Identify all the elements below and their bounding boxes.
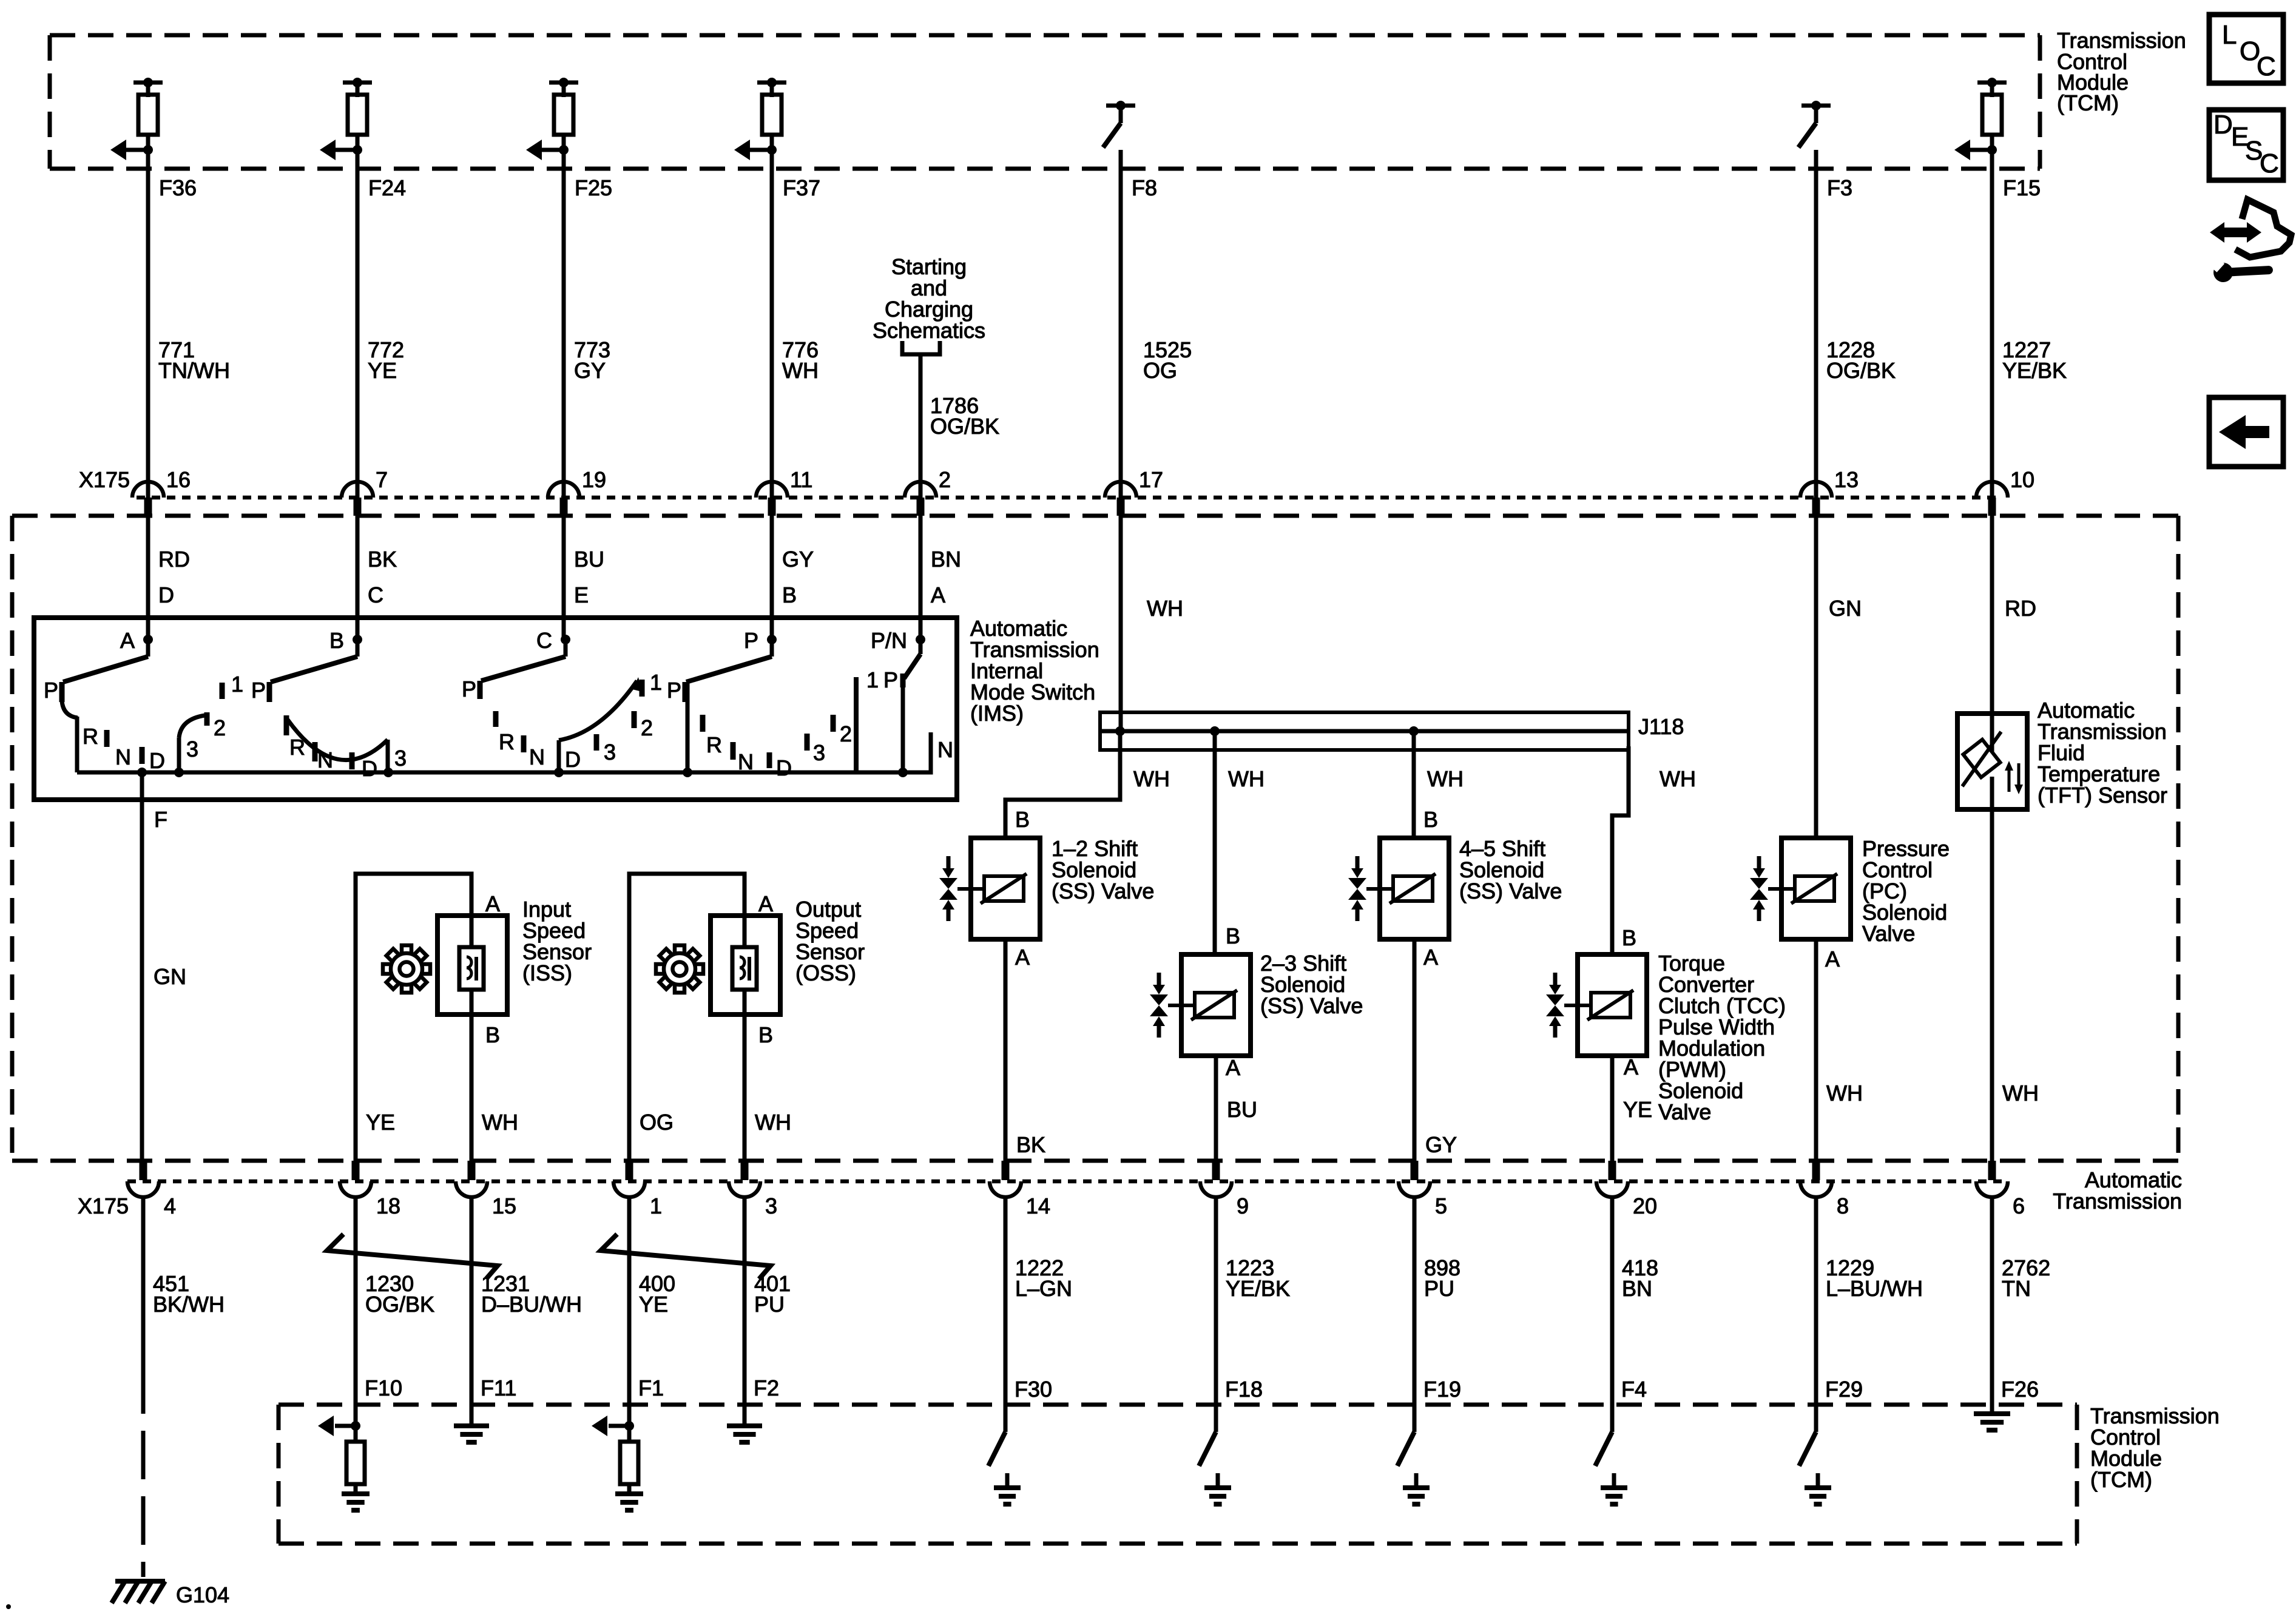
svg-text:G104: G104 [176, 1582, 229, 1607]
Automatic Transmission Internal Mode Switch (IMS) box [34, 618, 957, 800]
IMS switch A conductor 3-2 [174, 715, 205, 777]
svg-text:YE: YE [1623, 1097, 1652, 1122]
label TCC PWM Solenoid Valve [1658, 951, 1786, 1124]
IMS switch P contact N [733, 742, 754, 774]
TCM driver (resistor + arrow) for F25 [526, 78, 578, 160]
svg-text:B: B [1226, 923, 1240, 948]
wire 1230 OG/BK to TCM F10 [356, 1197, 434, 1423]
IMS switch A node [120, 628, 153, 653]
wire WH from J118 to TCC solenoid [1612, 746, 1696, 954]
svg-text:Valve: Valve [1862, 921, 1915, 946]
wire WH from J118 to 2-3 shift solenoid [1215, 731, 1264, 954]
Transmission Control Module (TCM) bottom dashed box [279, 1405, 2077, 1544]
IMS switch B contact R [286, 715, 305, 760]
IMS switch C contact N [524, 735, 545, 769]
svg-text:B: B [485, 1022, 500, 1047]
svg-text:P: P [44, 678, 58, 703]
TCM F2 ground [727, 1405, 762, 1442]
svg-text:F29: F29 [1825, 1377, 1863, 1402]
svg-text:R: R [83, 724, 98, 749]
svg-text:A: A [1015, 945, 1030, 970]
IMS switch P contact P and conductor [667, 678, 692, 777]
svg-text:3: 3 [394, 746, 407, 771]
svg-text:2: 2 [840, 721, 852, 746]
IMS switch B cam arc [288, 720, 393, 777]
connector X175 pin 6 (bottom) [1976, 1161, 2025, 1218]
IMS terminal F wire to connector X175 pin 4 [137, 768, 186, 1165]
Input Speed Sensor (ISS) body [437, 891, 507, 1165]
pin label F36 [159, 175, 197, 200]
wire label 773 GY [574, 337, 610, 383]
label Transmission Control Module (TCM) top [2057, 28, 2186, 115]
TCM driver (resistor + arrow) for F37 [734, 78, 786, 160]
svg-text:F26: F26 [2001, 1377, 2039, 1402]
svg-text:P: P [462, 677, 476, 701]
svg-text:4: 4 [164, 1193, 176, 1218]
svg-text:X175: X175 [78, 1193, 129, 1218]
label Automatic Transmission Fluid Temperature (TFT) Sensor [2038, 698, 2167, 808]
IMS switch C contact P [462, 677, 480, 701]
svg-text:A: A [931, 582, 945, 607]
svg-text:11: 11 [790, 467, 812, 492]
wire 1223 YE/BK to TCM F18 [1216, 1197, 1290, 1432]
IMS switch A blade to P [63, 640, 148, 682]
IMS switch B contact N [315, 742, 333, 772]
wire label 1786 OG/BK [930, 393, 999, 439]
svg-text:F3: F3 [1827, 175, 1852, 200]
ISS wire labels YE WH [366, 1110, 518, 1135]
svg-text:X175: X175 [79, 467, 130, 492]
off-page reference Starting and Charging Schematics [873, 254, 985, 354]
wire 2762 TN to TCM F26 [1992, 1197, 2050, 1414]
wire GY from pin to IMS terminal B [772, 516, 814, 642]
IMS switch P/N contact N [937, 737, 953, 762]
svg-text:F24: F24 [368, 175, 406, 200]
svg-text:BK: BK [368, 547, 397, 572]
connector X175 pin 17 (top) [1105, 467, 1163, 516]
pin label F3 [1827, 175, 1852, 200]
svg-text:GN: GN [1829, 596, 1862, 621]
svg-text:(SS) Valve: (SS) Valve [1459, 879, 1562, 903]
svg-text:WH: WH [1133, 766, 1170, 791]
svg-text:3: 3 [813, 740, 825, 765]
IMS switch C conductor D-2 [554, 677, 642, 777]
wire label 1525 OG [1143, 337, 1192, 383]
svg-text:BN: BN [1622, 1276, 1652, 1301]
svg-text:F25: F25 [575, 175, 612, 200]
TCM F10 input: arrow, resistor, ground [318, 1416, 370, 1510]
wire RD from pin 10 to TFT sensor [1992, 516, 2036, 714]
svg-text:GN: GN [154, 964, 186, 989]
IMS switch P node [744, 628, 777, 653]
connector X175 pin 3 (bottom) [729, 1161, 777, 1218]
svg-text:P: P [667, 678, 681, 703]
TCM F19 switch to ground [1397, 1405, 1430, 1504]
svg-text:A: A [1423, 945, 1438, 970]
TCM driver (resistor + arrow) for F15 [1954, 78, 2007, 160]
svg-text:WH: WH [782, 358, 819, 383]
label 4-5 Shift Solenoid (SS) Valve [1459, 836, 1562, 903]
IMS switch A contact R [83, 724, 107, 749]
svg-text:YE: YE [639, 1292, 668, 1317]
wire label 772 YE [368, 337, 404, 383]
IMS switch P contact D [769, 752, 792, 780]
wire from PC solenoid A to connector pin 8 [1816, 939, 1863, 1165]
connector X175 pin 20 (bottom) [1596, 1161, 1657, 1218]
svg-text:P: P [744, 628, 758, 653]
svg-text:A: A [1825, 947, 1840, 971]
IMS switch B blade to P [271, 640, 357, 682]
wire F36 from TCM to connector X175 pin 16 [146, 150, 150, 498]
svg-text:RD: RD [2005, 596, 2036, 621]
svg-text:BU: BU [574, 547, 604, 572]
svg-text:RD: RD [158, 547, 190, 572]
TCM F26 ground [1974, 1414, 2010, 1430]
svg-text:A: A [485, 891, 500, 916]
twisted pair symbol (OSS wires) [601, 1234, 771, 1279]
svg-text:J118: J118 [1638, 714, 1684, 739]
svg-text:F10: F10 [365, 1376, 402, 1400]
svg-text:C: C [2260, 149, 2279, 178]
connector X175 label bottom [78, 1193, 129, 1218]
connector X175 pin 1 (bottom) [613, 1161, 662, 1218]
svg-text:A: A [758, 891, 773, 916]
wire F8 from TCM to connector X175 pin 17 [1119, 150, 1123, 498]
IMS switch C blade to P [481, 640, 566, 681]
wire 1231 D-BU/WH to TCM F11 [471, 1197, 582, 1421]
IMS switch A contact D label [149, 748, 165, 773]
svg-text:F15: F15 [2003, 175, 2041, 200]
svg-text:YE/BK: YE/BK [2002, 358, 2067, 383]
IMS switch B node [329, 628, 362, 653]
connector X175 pin 19 (top) [548, 467, 606, 516]
svg-text:BK: BK [1016, 1132, 1045, 1157]
svg-text:6: 6 [2013, 1193, 2025, 1218]
svg-text:F2: F2 [754, 1376, 779, 1400]
svg-text:BK/WH: BK/WH [153, 1292, 225, 1317]
svg-text:3: 3 [604, 740, 616, 765]
svg-text:P: P [883, 667, 898, 692]
svg-text:OG: OG [1143, 358, 1177, 383]
svg-text:2: 2 [641, 715, 653, 740]
TCM F1 input: arrow, resistor, ground [592, 1416, 643, 1510]
connector X175 pin 18 (bottom) [340, 1161, 400, 1218]
Torque Converter Clutch (TCC) PWM Solenoid Valve [1546, 954, 1647, 1056]
label Automatic Transmission Internal Mode Switch (IMS) [970, 616, 1099, 726]
wire BN from pin to IMS terminal A [920, 516, 961, 642]
wire BU from pin to IMS terminal E [564, 516, 604, 642]
2-3 Shift Solenoid (SS) Valve [1150, 954, 1251, 1056]
ground G104 [112, 1581, 229, 1607]
IMS switch B contact P [251, 678, 269, 703]
connector X175 pin 16 (top) [132, 467, 191, 516]
TCM F30 switch to ground [988, 1405, 1021, 1504]
svg-text:B: B [1015, 807, 1030, 832]
IMS switch C contact R [496, 711, 515, 754]
svg-text:D: D [565, 747, 581, 772]
wire label 1227 YE/BK [2002, 337, 2067, 383]
wire F3 from TCM to connector X175 pin 13 [1814, 150, 1818, 498]
connector X175 pin 4 (bottom) [127, 1161, 176, 1218]
svg-text:2: 2 [939, 467, 951, 492]
svg-text:A: A [1624, 1055, 1638, 1079]
label Transmission Control Module (TCM) bottom [2090, 1403, 2220, 1492]
svg-text:7: 7 [376, 467, 388, 492]
TCM F29 switch to ground [1799, 1405, 1831, 1504]
svg-text:F: F [154, 807, 167, 832]
svg-text:A: A [1226, 1055, 1240, 1080]
svg-text:3: 3 [765, 1193, 777, 1218]
svg-text:F30: F30 [1015, 1377, 1052, 1402]
TCM driver (resistor + arrow) for F24 [320, 78, 372, 160]
twisted pair symbol (ISS wires) [327, 1234, 498, 1279]
svg-text:B: B [1622, 925, 1636, 950]
connector X175 bottom dotted line [127, 1180, 2002, 1184]
wire label 776 WH [782, 337, 819, 383]
svg-text:PU: PU [754, 1292, 785, 1317]
svg-text:TN/WH: TN/WH [158, 358, 230, 383]
svg-text:B: B [1423, 807, 1438, 832]
icon DESC box [2209, 110, 2283, 180]
Transmission Control Module (TCM) top dashed box [50, 35, 2040, 169]
Output Speed Sensor (OSS) gear icon [656, 945, 703, 993]
wire F37 from TCM to connector X175 pin 11 [770, 150, 774, 498]
svg-text:9: 9 [1237, 1193, 1249, 1218]
svg-text:OG/BK: OG/BK [365, 1292, 434, 1317]
TCM driver (resistor + arrow) for F36 [110, 78, 163, 160]
label Pressure Control (PC) Solenoid Valve [1862, 836, 1950, 946]
wire 1786 from schematics bracket to connector X175 pin 2 [919, 354, 923, 498]
svg-text:18: 18 [376, 1193, 400, 1218]
splice pack J118 [1100, 712, 1684, 750]
svg-text:P: P [251, 678, 266, 703]
svg-text:1: 1 [650, 670, 662, 695]
wire from TFT sensor to connector pin 6 [1992, 809, 2039, 1165]
icon LOC box [2209, 15, 2283, 83]
svg-text:C: C [368, 582, 383, 607]
IMS switch C contact 3 [596, 734, 616, 765]
svg-text:WH: WH [1660, 766, 1696, 791]
svg-text:1: 1 [866, 667, 879, 692]
svg-text:Transmission: Transmission [2053, 1189, 2182, 1214]
svg-text:N: N [317, 748, 333, 772]
TCM F18 switch to ground [1199, 1405, 1231, 1504]
svg-text:OG: OG [640, 1110, 674, 1135]
IMS switch C node [536, 628, 570, 653]
svg-text:(TCM): (TCM) [2090, 1467, 2152, 1492]
connector X175 top dotted line [137, 496, 2002, 500]
svg-text:2: 2 [214, 715, 226, 740]
connector X175 pin 8 (bottom) [1800, 1161, 1849, 1218]
TCM switch for F3 [1798, 101, 1831, 147]
svg-text:D: D [2213, 110, 2233, 140]
IMS switch B label 3 [394, 746, 407, 771]
TCM F11 ground [454, 1405, 489, 1442]
IMS switch P/N contact 1 [856, 667, 879, 772]
IMS switch P/N contact P and conductor [883, 667, 908, 777]
svg-text:(IMS): (IMS) [970, 701, 1024, 726]
Automatic Transmission Fluid Temperature (TFT) Sensor [1957, 714, 2027, 809]
Output Speed Sensor (OSS) body [711, 891, 780, 1165]
svg-text:(OSS): (OSS) [795, 960, 856, 985]
svg-text:10: 10 [2010, 467, 2034, 492]
svg-text:GY: GY [782, 547, 814, 572]
svg-text:14: 14 [1026, 1193, 1050, 1218]
svg-text:F4: F4 [1621, 1377, 1647, 1402]
wire 1229 L-BU/WH to TCM F29 [1816, 1197, 1923, 1432]
IMS switch A contact N [115, 744, 142, 769]
svg-text:WH: WH [1427, 766, 1464, 791]
svg-text:B: B [782, 582, 797, 607]
IMS switch B contact D [352, 752, 377, 781]
Pressure Control (PC) Solenoid Valve [1750, 838, 1851, 939]
svg-text:BN: BN [931, 547, 961, 572]
svg-text:Schematics: Schematics [873, 318, 985, 343]
svg-text:WH: WH [482, 1110, 518, 1135]
svg-text:R: R [499, 729, 515, 754]
svg-text:WH: WH [2002, 1081, 2039, 1106]
svg-text:B: B [758, 1022, 773, 1047]
svg-text:OG/BK: OG/BK [930, 414, 999, 439]
svg-text:D: D [158, 582, 174, 607]
svg-text:15: 15 [492, 1193, 516, 1218]
connector X175 pin 2 (top) [905, 467, 951, 516]
wire WH from J118 to 1-2 shift solenoid [1005, 731, 1170, 838]
svg-text:WH: WH [1228, 766, 1264, 791]
svg-text:A: A [120, 628, 135, 653]
svg-text:YE: YE [368, 358, 397, 383]
4-5 Shift Solenoid (SS) Valve [1348, 838, 1449, 939]
wire label 771 TN/WH [158, 337, 230, 383]
svg-text:L–GN: L–GN [1015, 1276, 1072, 1301]
Input Speed Sensor (ISS) loop wire [356, 874, 471, 1165]
svg-text:1: 1 [231, 672, 243, 697]
connector X175 pin 9 (bottom) [1200, 1161, 1249, 1218]
IMS switch P/N node [871, 628, 925, 653]
svg-text:E: E [574, 582, 589, 607]
svg-text:(SS) Valve: (SS) Valve [1260, 993, 1363, 1018]
Automatic Transmission dashed box [12, 516, 2178, 1161]
Input Speed Sensor (ISS) gear icon [383, 945, 430, 993]
svg-text:D: D [776, 755, 792, 780]
IMS switch P/N blade to P [904, 640, 920, 678]
IMS switch P contact 3 [807, 734, 825, 765]
svg-text:F19: F19 [1423, 1377, 1461, 1402]
svg-text:N: N [937, 737, 953, 762]
svg-text:(TFT) Sensor: (TFT) Sensor [2038, 783, 2167, 808]
IMS common bus [77, 732, 931, 772]
wire BK from pin to IMS terminal C [357, 516, 397, 642]
connector X175 pin 5 (bottom) [1399, 1161, 1447, 1218]
svg-text:1: 1 [650, 1193, 662, 1218]
icon back arrow box [2209, 397, 2283, 467]
svg-text:17: 17 [1139, 467, 1163, 492]
pin label F15 [2003, 175, 2041, 200]
wire RD from pin to IMS terminal D [148, 516, 190, 642]
svg-text:D: D [149, 748, 165, 773]
svg-text:GY: GY [574, 358, 606, 383]
icon service tool (arrow and wrench) [2207, 200, 2291, 283]
wire 451 BK/WH to ground G104 [143, 1197, 225, 1577]
svg-text:N: N [738, 749, 754, 774]
svg-text:C: C [536, 628, 552, 653]
label 2-3 Shift Solenoid (SS) Valve [1260, 951, 1363, 1018]
label Automatic Transmission (bottom right) [2053, 1167, 2182, 1214]
wire 1222 L-GN to TCM F30 [1005, 1197, 1072, 1432]
J118 junction dots [1115, 726, 1419, 736]
svg-text:N: N [115, 744, 131, 769]
svg-text:D–BU/WH: D–BU/WH [481, 1292, 582, 1317]
svg-text:(SS) Valve: (SS) Valve [1052, 879, 1154, 903]
wire F24 from TCM to connector X175 pin 7 [356, 150, 360, 498]
svg-text:3: 3 [186, 737, 198, 761]
IMS switch A contact 2 [207, 712, 226, 740]
svg-text:YE/BK: YE/BK [1226, 1276, 1290, 1301]
Output Speed Sensor (OSS) loop wire [629, 874, 745, 1165]
svg-text:F36: F36 [159, 175, 197, 200]
svg-text:R: R [706, 732, 722, 757]
svg-text:20: 20 [1633, 1193, 1657, 1218]
IMS switch P blade to P [686, 640, 772, 682]
OSS wire labels OG WH [640, 1110, 791, 1135]
pin label F24 [368, 175, 406, 200]
svg-text:19: 19 [582, 467, 606, 492]
svg-text:F37: F37 [783, 175, 820, 200]
connector X175 pin 13 (top) [1800, 467, 1859, 516]
label Output Speed Sensor (OSS) [795, 897, 865, 985]
svg-text:WH: WH [755, 1110, 791, 1135]
wire 898 PU to TCM F19 [1414, 1197, 1461, 1432]
wire WH from J118 to 4-5 shift solenoid [1414, 731, 1464, 838]
wire F25 from TCM to connector X175 pin 19 [562, 150, 566, 498]
svg-text:BU: BU [1227, 1097, 1257, 1122]
wire 400 YE to TCM F1 [629, 1197, 675, 1423]
wire GN from pin 13 to PC solenoid [1816, 516, 1862, 838]
svg-text:YE: YE [366, 1110, 395, 1135]
IMS switch P contact R [703, 715, 722, 757]
wire from 2-3 solenoid A to connector pin 9 [1216, 1055, 1257, 1165]
stray mark bottom left [6, 1604, 11, 1609]
svg-text:N: N [529, 744, 545, 769]
svg-text:5: 5 [1435, 1193, 1447, 1218]
connector X175 pin 14 (bottom) [990, 1161, 1050, 1218]
svg-text:8: 8 [1837, 1193, 1849, 1218]
label Input Speed Sensor (ISS) [522, 897, 592, 985]
svg-text:F11: F11 [481, 1376, 516, 1400]
pin label F25 [575, 175, 612, 200]
svg-text:P/N: P/N [871, 628, 907, 653]
IMS switch B contact 1 [222, 672, 243, 699]
wire 401 PU to TCM F2 [745, 1197, 791, 1421]
svg-text:F18: F18 [1225, 1377, 1263, 1402]
svg-text:(ISS): (ISS) [522, 960, 572, 985]
wire from 4-5 solenoid A to connector pin 5 [1414, 939, 1457, 1165]
svg-text:WH: WH [1147, 596, 1183, 621]
wire 418 BN to TCM F4 [1612, 1197, 1658, 1432]
svg-text:GY: GY [1425, 1132, 1457, 1157]
pin label F8 [1132, 175, 1157, 200]
connector X175 pin 7 (top) [342, 467, 388, 516]
IMS switch C contact 1 [642, 670, 662, 697]
connector X175 label top [79, 467, 130, 492]
wire from TCC solenoid A to connector pin 20 [1612, 1055, 1652, 1165]
IMS switch A contact P [44, 678, 78, 772]
svg-text:(TCM): (TCM) [2057, 90, 2119, 115]
IMS switch C contact 2 [634, 711, 653, 740]
connector X175 pin 11 (top) [756, 467, 812, 516]
TCM F4 switch to ground [1595, 1405, 1627, 1504]
svg-text:B: B [329, 628, 344, 653]
